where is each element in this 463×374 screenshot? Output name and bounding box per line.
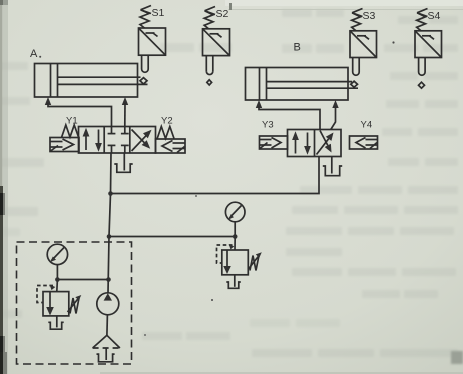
cylinder A <box>30 48 148 97</box>
spring of R1 <box>70 298 79 314</box>
solenoid Y1 <box>50 116 79 152</box>
solenoid Y2 <box>156 116 186 154</box>
wire cylinder B right port to valve V2 <box>331 100 339 130</box>
solenoid Y3 <box>260 120 288 150</box>
relief valve R2 <box>217 237 262 289</box>
V1 right position crossed arrows <box>132 135 147 151</box>
solenoid Y4 <box>350 120 378 150</box>
limit switch S4 <box>415 9 442 89</box>
wire cylinder A left port to valve V1 port A <box>45 97 112 127</box>
relief valve R1 <box>37 280 81 330</box>
page left edge shading <box>0 0 3 188</box>
svg-text:B: B <box>294 42 301 54</box>
junction node P1 <box>108 191 113 196</box>
spring of R2 <box>250 256 259 271</box>
junction node P2 <box>107 234 112 239</box>
V2 right position crossed arrows <box>317 139 329 155</box>
svg-text:A: A <box>30 48 38 60</box>
spring of Y1 <box>62 125 79 138</box>
wire cylinder B left port to valve V2 <box>256 100 320 130</box>
valve V1 4/3 solenoid valve <box>79 127 156 154</box>
tank below R1 <box>56 316 58 328</box>
junction node P4 <box>106 277 111 282</box>
svg-text:S4: S4 <box>428 10 441 22</box>
valve V2 4/2 solenoid valve <box>288 130 342 157</box>
svg-text:Y1: Y1 <box>66 116 78 127</box>
speck marks <box>39 41 394 336</box>
pilot line (dashed) of R1 <box>37 286 53 303</box>
wire branch to valve V2 P port <box>111 157 320 194</box>
cylinder B <box>246 42 359 101</box>
tank below valve V2 <box>323 157 342 176</box>
top-right page edge <box>225 0 463 6</box>
suction strainer <box>93 335 120 348</box>
limit switch S2 <box>203 7 230 86</box>
pilot line (dashed) of R2 <box>217 245 233 263</box>
svg-text:Y3: Y3 <box>262 120 274 131</box>
pressure gauge G2 <box>225 202 245 236</box>
svg-text:S2: S2 <box>216 8 229 20</box>
junction node P5 <box>55 277 60 282</box>
power unit dashed enclosure <box>17 242 132 364</box>
V1 centre position blocked ports <box>111 127 113 134</box>
bottom right gray blob <box>451 351 463 364</box>
pump P1 <box>97 293 119 336</box>
tank below pump <box>97 348 115 362</box>
svg-text:S1: S1 <box>152 7 165 19</box>
svg-text:S3: S3 <box>363 10 376 22</box>
wire cylinder A right port to valve V1 port B <box>122 97 128 127</box>
pressure gauge G1 <box>47 244 67 279</box>
limit switch S1 <box>139 6 166 73</box>
wire gauge G1 / relief R1 branch <box>57 279 108 281</box>
spring of Y2 <box>157 127 174 140</box>
tank below valve V1 <box>114 153 132 172</box>
wire P line from valve V1 down to pump <box>108 153 111 293</box>
svg-text:Y2: Y2 <box>161 116 173 127</box>
junction node P3 <box>233 234 238 239</box>
svg-text:Y4: Y4 <box>361 120 373 131</box>
limit switch S3 <box>350 9 377 76</box>
V1 left position arrows <box>85 133 87 150</box>
wire branch to gauge G2 and valve R2 <box>109 236 235 238</box>
V2 left position arrows <box>295 137 297 154</box>
tank below R2 <box>234 275 236 287</box>
